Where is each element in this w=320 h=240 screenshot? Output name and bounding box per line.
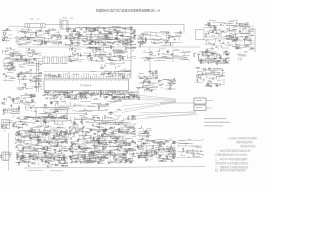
label lbl82 xyxy=(221,74,223,77)
resistor R169 xyxy=(89,158,90,160)
capacitor C60 xyxy=(108,59,110,61)
capacitor C88 xyxy=(132,94,134,96)
resistor R35 xyxy=(251,48,253,49)
resistor R148 xyxy=(121,132,123,133)
label lbl14 xyxy=(22,28,23,31)
capacitor C117 xyxy=(20,150,22,152)
node xyxy=(23,136,26,139)
transistor Q62 xyxy=(173,150,175,152)
wire xyxy=(54,132,57,134)
resistor R37 xyxy=(237,48,239,49)
label lbl49 xyxy=(251,43,253,46)
resistor R44 xyxy=(209,23,210,25)
resistor R22 xyxy=(130,39,131,41)
wire mesh xyxy=(137,128,152,138)
resistor R93 xyxy=(115,97,117,98)
wire xyxy=(206,100,213,102)
label lbl8 xyxy=(17,27,18,30)
capacitor C104 xyxy=(13,122,15,124)
label lbl67 xyxy=(129,56,130,59)
wire xyxy=(126,123,128,125)
label lbl106 xyxy=(19,135,20,138)
capacitor C174 xyxy=(72,142,74,144)
transistor Q45 xyxy=(98,142,100,144)
wire xyxy=(47,92,49,94)
transistor Q60 xyxy=(144,131,146,133)
capacitor C39 xyxy=(216,31,218,33)
ground xyxy=(103,43,105,44)
wire xyxy=(46,148,48,150)
wire xyxy=(122,92,124,94)
node xyxy=(47,91,50,94)
dial cord diagram xyxy=(122,94,198,120)
resistor R173 xyxy=(84,155,85,157)
wire xyxy=(227,38,229,40)
label lbl139 xyxy=(132,160,133,163)
wire xyxy=(35,60,37,92)
node xyxy=(108,26,111,29)
label lbl26 xyxy=(107,38,108,41)
label lbl92 xyxy=(18,105,19,108)
ground xyxy=(53,157,55,158)
wire xyxy=(188,138,192,140)
wire xyxy=(100,53,102,55)
wire xyxy=(122,119,124,121)
label lbl155 xyxy=(94,132,95,135)
capacitor C141 xyxy=(132,140,134,142)
resistor R28 xyxy=(122,42,123,44)
resistor R54 xyxy=(96,49,97,51)
wire xyxy=(235,42,237,44)
capacitor C100 xyxy=(32,96,34,98)
ground xyxy=(71,144,73,145)
capacitor C8 xyxy=(97,41,99,43)
wire xyxy=(208,42,210,43)
resistor R146 xyxy=(69,131,70,133)
wire xyxy=(134,143,136,145)
resistor R160 xyxy=(129,162,131,163)
node xyxy=(17,96,20,99)
wire xyxy=(162,160,164,162)
capacitor C143 xyxy=(68,156,70,158)
resistor R104 xyxy=(106,103,108,104)
label lbl23 xyxy=(94,34,96,37)
wire xyxy=(122,139,124,140)
capacitor C148 xyxy=(77,140,79,142)
wire xyxy=(136,146,139,148)
transistor Q19 xyxy=(90,57,92,59)
svg-text:作,整机静态电流约为12mA左右: 作,整机静态电流约为12mA左右 xyxy=(215,153,248,157)
label lbl164 xyxy=(174,153,176,156)
resistor R16 xyxy=(67,30,68,32)
node xyxy=(61,130,64,133)
capacitor C169 xyxy=(85,134,87,136)
wire xyxy=(156,50,159,52)
wire xyxy=(172,155,175,157)
wire mesh xyxy=(101,63,131,77)
label lbl109 xyxy=(38,163,39,166)
ground xyxy=(74,29,76,30)
transistor Q33 xyxy=(110,112,112,114)
transistor Q22 xyxy=(146,77,148,79)
label lbl1 xyxy=(67,71,69,74)
resistor R84 xyxy=(130,95,132,96)
ground xyxy=(22,77,24,78)
capacitor C9 xyxy=(82,40,84,42)
capacitor C29 xyxy=(116,37,118,39)
wire xyxy=(34,157,51,159)
label lbl141 xyxy=(94,137,95,140)
resistor R3 xyxy=(59,118,61,119)
node xyxy=(124,27,127,30)
capacitor C162 xyxy=(104,139,106,141)
capacitor C114 xyxy=(22,155,24,157)
capacitor C52 xyxy=(34,76,36,78)
wire xyxy=(27,130,29,132)
capacitor C108 xyxy=(44,122,46,124)
capacitor C110 xyxy=(15,146,17,148)
capacitor C27 xyxy=(103,28,105,30)
speaker BL xyxy=(194,105,206,111)
resistor R176 xyxy=(99,143,101,144)
wire xyxy=(86,122,129,124)
wire xyxy=(24,100,26,101)
wire xyxy=(97,29,99,31)
notes text block xyxy=(215,136,257,172)
node xyxy=(145,159,148,162)
resistor R130 xyxy=(16,133,17,135)
capacitor C37 xyxy=(233,39,235,41)
diode D47 xyxy=(84,148,87,150)
resistor R4 xyxy=(38,118,40,119)
node xyxy=(23,97,26,100)
label lbl129 xyxy=(124,122,125,125)
capacitor C186 xyxy=(157,142,159,144)
transistor Q26 xyxy=(133,96,135,98)
transistor Q49 xyxy=(123,154,125,156)
resistor R174 xyxy=(93,137,94,139)
wire xyxy=(70,41,72,43)
resistor R17 xyxy=(89,30,91,31)
capacitor C111 xyxy=(20,158,22,160)
ground xyxy=(5,75,7,76)
resistor R143 xyxy=(84,155,85,157)
label lbl59 xyxy=(10,59,11,62)
node xyxy=(46,74,49,77)
resistor R30 xyxy=(153,42,155,43)
resistor R81 xyxy=(204,69,206,70)
wire xyxy=(102,131,106,133)
node xyxy=(26,142,29,145)
diode D31 xyxy=(44,121,47,123)
label lbl166 xyxy=(196,146,197,149)
wire xyxy=(20,154,23,156)
wire xyxy=(91,140,118,142)
wire xyxy=(61,101,65,103)
label lbl104 xyxy=(28,146,30,149)
wire xyxy=(36,149,38,151)
resistor R136 xyxy=(73,123,74,125)
label lbl114 xyxy=(26,146,27,149)
wire xyxy=(212,44,214,46)
label lbl4 xyxy=(60,110,61,113)
label lbl72 xyxy=(142,81,143,84)
label lbl108 xyxy=(49,134,50,137)
wire xyxy=(34,159,64,161)
wire xyxy=(161,160,163,161)
wire xyxy=(24,87,26,89)
wire xyxy=(59,150,61,151)
resistor R145 xyxy=(71,160,72,162)
capacitor C64 xyxy=(151,89,153,91)
node xyxy=(231,35,234,38)
wire mesh xyxy=(14,28,62,46)
wire xyxy=(160,142,164,144)
wire xyxy=(97,134,100,136)
wire xyxy=(199,150,201,152)
node xyxy=(141,33,144,36)
wire xyxy=(45,23,184,25)
wire xyxy=(128,96,130,98)
node xyxy=(80,33,83,36)
capacitor C105 xyxy=(15,126,17,128)
wire xyxy=(53,111,55,112)
resistor R60 xyxy=(101,67,103,68)
wire xyxy=(92,92,95,94)
wire xyxy=(227,41,229,43)
wire xyxy=(167,140,169,142)
label lbl131 xyxy=(118,116,120,119)
wire xyxy=(72,155,74,156)
resistor R36 xyxy=(246,45,248,46)
label lbl111 xyxy=(64,145,65,148)
wire xyxy=(129,158,133,160)
label lbl38 xyxy=(152,37,153,40)
wire xyxy=(205,36,241,38)
wire mesh xyxy=(1,121,14,132)
wire xyxy=(144,152,157,154)
label lbl137 xyxy=(70,155,72,158)
wire xyxy=(155,147,159,149)
resistor R96 xyxy=(59,93,60,95)
wire xyxy=(16,87,20,89)
capacitor C34 xyxy=(168,37,170,39)
ground xyxy=(126,41,128,42)
diode D43 xyxy=(30,137,33,139)
resistor R26 xyxy=(91,34,92,36)
wire xyxy=(61,152,63,153)
node xyxy=(118,143,121,146)
capacitor C22 xyxy=(68,27,70,29)
wire xyxy=(125,160,127,161)
capacitor C45 xyxy=(28,61,30,63)
capacitor C150 xyxy=(114,136,116,138)
wire xyxy=(50,37,53,39)
transistor Q9 xyxy=(133,32,135,34)
resistor R14 xyxy=(107,39,109,40)
transistor Q51 xyxy=(115,140,117,142)
capacitor C33 xyxy=(180,31,182,33)
sub-circuit frame xyxy=(36,108,67,122)
wire mesh xyxy=(44,101,122,115)
label lbl24 xyxy=(89,43,91,46)
wire xyxy=(44,92,48,94)
wire xyxy=(75,41,77,44)
wire mesh xyxy=(71,116,136,126)
wire mesh xyxy=(3,29,12,43)
wire mesh xyxy=(68,127,136,164)
capacitor C51 xyxy=(34,87,36,89)
ground xyxy=(239,23,241,24)
wire xyxy=(90,94,95,96)
wire xyxy=(121,28,125,30)
capacitor C41 xyxy=(239,31,241,33)
capacitor C49 xyxy=(20,71,22,73)
label lbl15 xyxy=(16,35,18,38)
label lbl55 xyxy=(26,47,28,50)
label lbl80 xyxy=(239,52,240,55)
resistor R34 xyxy=(140,44,141,46)
label lbl153 xyxy=(126,148,128,151)
label lbl18 xyxy=(58,35,59,38)
capacitor C149 xyxy=(90,129,92,131)
label lbl44 xyxy=(242,28,244,31)
transistor Q47 xyxy=(110,136,112,138)
wire mesh xyxy=(177,139,204,158)
capacitor C131 xyxy=(81,122,83,124)
transistor Q42 xyxy=(17,154,19,156)
node xyxy=(226,24,229,27)
label lbl133 xyxy=(90,137,92,140)
resistor R125 xyxy=(57,142,58,144)
wire xyxy=(38,129,40,131)
wire xyxy=(219,45,222,47)
capacitor C13 xyxy=(99,32,101,34)
resistor R61 xyxy=(146,57,148,58)
label lbl120 xyxy=(46,132,48,135)
wire xyxy=(254,28,256,52)
capacitor C77 xyxy=(212,77,214,79)
wire xyxy=(96,124,100,126)
wire xyxy=(27,161,29,163)
capacitor C138 xyxy=(114,160,116,162)
label lbl43 xyxy=(229,44,231,47)
wire xyxy=(25,125,27,127)
resistor R165 xyxy=(101,158,102,160)
ground xyxy=(63,93,65,94)
node xyxy=(21,147,24,150)
wire xyxy=(11,55,13,57)
capacitor C40 xyxy=(220,23,222,25)
wire xyxy=(124,67,126,70)
label lbl45 xyxy=(241,34,242,37)
wire xyxy=(127,92,129,94)
label lbl93 xyxy=(11,106,13,109)
wire xyxy=(44,71,131,73)
node xyxy=(24,117,27,120)
wire xyxy=(223,69,225,72)
resistor R120 xyxy=(64,132,65,134)
wire xyxy=(151,141,154,143)
resistor R56 xyxy=(89,53,90,55)
resistor R92 xyxy=(104,97,106,98)
capacitor C156 xyxy=(105,146,107,148)
IF transformer T1 xyxy=(62,21,69,30)
wire xyxy=(172,141,174,143)
wire xyxy=(93,156,95,158)
capacitor C93 xyxy=(111,97,113,99)
label lbl105 xyxy=(23,147,24,150)
label lbl146 xyxy=(79,127,81,130)
capacitor C47 xyxy=(25,60,27,62)
wire xyxy=(213,38,234,40)
IF transformer T3 xyxy=(52,57,59,64)
resistor R106 xyxy=(45,133,46,135)
resistor R113 xyxy=(42,134,43,136)
capacitor C188 xyxy=(193,154,195,156)
wire xyxy=(53,136,55,138)
label lbl88 xyxy=(72,94,73,97)
label lbl99 xyxy=(29,127,30,130)
label lbl118 xyxy=(23,139,25,142)
wire xyxy=(109,31,111,32)
wire xyxy=(216,46,218,48)
label lbl90 xyxy=(15,108,16,111)
label lbl113 xyxy=(23,160,24,163)
wire mesh xyxy=(63,27,136,47)
diode D39 xyxy=(48,157,51,159)
capacitor C127 xyxy=(22,156,24,158)
label lbl20 xyxy=(101,33,102,36)
capacitor C84 xyxy=(96,93,98,95)
resistor R20 xyxy=(130,27,132,28)
resistor R128 xyxy=(37,135,38,137)
label lbl53 xyxy=(219,28,220,31)
wire xyxy=(97,38,99,40)
resistor R69 xyxy=(170,85,171,87)
wire xyxy=(126,127,130,129)
label lbl95 xyxy=(45,112,47,115)
capacitor C48 xyxy=(13,66,15,68)
node xyxy=(10,63,13,66)
wire xyxy=(46,165,48,167)
wire xyxy=(141,40,143,42)
diode D55 xyxy=(119,160,122,162)
wire xyxy=(118,144,120,147)
wire xyxy=(85,132,87,133)
node xyxy=(208,57,211,60)
node xyxy=(118,65,121,68)
wire xyxy=(93,119,95,121)
wire xyxy=(155,149,157,151)
svg-text:熊猫牌B802型六管六波段交流收音机电路图 (四八-6): 熊猫牌B802型六管六波段交流收音机电路图 (四八-6) xyxy=(96,7,160,12)
resistor R175 xyxy=(117,150,119,151)
label lbl116 xyxy=(24,154,26,157)
capacitor C181 xyxy=(159,142,161,144)
capacitor C85 xyxy=(75,94,77,96)
capacitor C24 xyxy=(91,40,93,42)
resistor R112 xyxy=(44,130,46,131)
wire mesh xyxy=(2,96,20,114)
capacitor C155 xyxy=(131,148,133,150)
ground xyxy=(41,160,43,161)
transistor Q63 xyxy=(159,156,161,158)
node xyxy=(133,149,136,152)
ground xyxy=(165,42,167,43)
resistor R168 xyxy=(125,155,126,157)
label lbl163 xyxy=(139,156,141,159)
resistor R102 xyxy=(31,95,32,97)
